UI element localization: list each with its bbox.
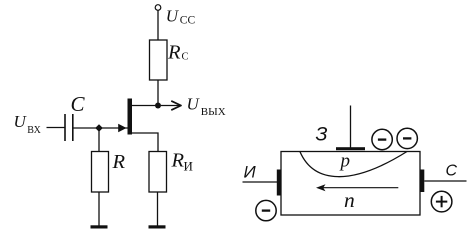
svg-text:R: R — [171, 150, 185, 172]
svg-text:U: U — [14, 112, 28, 131]
svg-text:n: n — [344, 188, 355, 212]
svg-text:p: p — [339, 151, 351, 172]
svg-text:СС: СС — [180, 14, 196, 26]
svg-text:С: С — [446, 163, 458, 180]
svg-text:С: С — [182, 52, 189, 63]
svg-text:ВЫХ: ВЫХ — [201, 106, 226, 118]
svg-text:U: U — [187, 95, 201, 114]
svg-text:ВХ: ВХ — [27, 125, 41, 136]
svg-text:U: U — [166, 7, 180, 26]
svg-text:И: И — [184, 158, 193, 173]
svg-text:R: R — [167, 42, 181, 64]
svg-text:C: C — [71, 92, 86, 116]
svg-text:R: R — [112, 151, 126, 173]
svg-text:З: З — [316, 123, 328, 145]
svg-text:И: И — [244, 163, 257, 182]
